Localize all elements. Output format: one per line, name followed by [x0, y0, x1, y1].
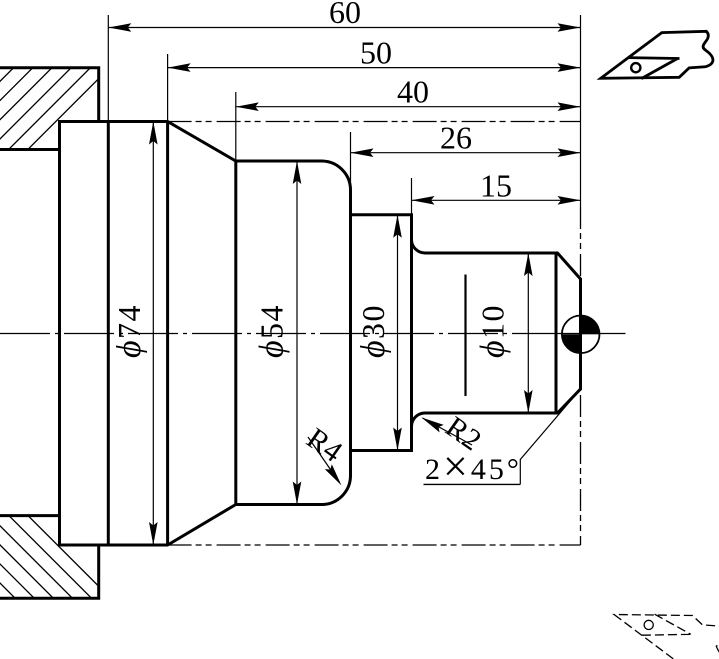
svg-text:ϕ10: ϕ10 — [475, 304, 512, 358]
dimension phi54 — [254, 161, 302, 505]
chamfer start line at x=556 — [555, 253, 558, 413]
svg-text:15: 15 — [480, 167, 512, 203]
blank outline bottom (phantom) — [168, 544, 581, 546]
svg-text:60: 60 — [329, 0, 361, 30]
chuck jaw bottom (hatched) — [0, 512, 113, 600]
blank outline top (phantom) — [168, 121, 581, 123]
process cut line at x=411.5 — [410, 215, 413, 451]
extension line 15 — [411, 178, 413, 215]
dimension phi74 — [111, 122, 158, 546]
short cut mark at x=465.5 — [464, 275, 466, 397]
dimension 26 — [351, 120, 581, 157]
svg-text:ϕ74: ϕ74 — [111, 304, 148, 358]
svg-text:26: 26 — [440, 120, 472, 156]
process cut line at x=350.5 — [349, 190, 352, 476]
dimension 15 — [412, 167, 581, 204]
extension line 40 — [235, 92, 237, 161]
leader R4 — [301, 422, 349, 488]
chamfer label 2x45 — [424, 389, 581, 491]
process cut line at x=167.6 — [166, 122, 169, 546]
dimension 50 — [168, 35, 581, 72]
extension line 60 — [107, 15, 109, 122]
workpiece outline — [60, 122, 581, 546]
svg-text:50: 50 — [360, 35, 392, 71]
center symbol (tailstock center) — [562, 316, 600, 354]
dimension 60 — [108, 0, 580, 32]
extension line 26 — [350, 132, 352, 190]
process cut line at x=235.8 — [234, 161, 237, 505]
dimension phi10 — [475, 253, 533, 413]
blank right edge / common extension line — [580, 15, 582, 207]
dimension phi30 — [355, 215, 402, 451]
chuck jaw top (hatched) — [0, 66, 112, 160]
process cut line at x=108.3 — [107, 122, 110, 546]
centerline (axis) — [0, 333, 552, 335]
dimension 40 — [236, 74, 581, 111]
chuck jaw top outline — [0, 68, 99, 150]
extension line 50 — [167, 54, 169, 122]
svg-text:ϕ54: ϕ54 — [254, 304, 291, 358]
svg-text:ϕ30: ϕ30 — [355, 304, 392, 358]
tool icon bottom right (phantom, mirrored) — [614, 614, 719, 659]
svg-text:40: 40 — [397, 74, 429, 110]
tool icon top right — [601, 31, 713, 78]
leader R2 — [419, 410, 487, 457]
chuck jaw bottom outline — [0, 516, 99, 599]
